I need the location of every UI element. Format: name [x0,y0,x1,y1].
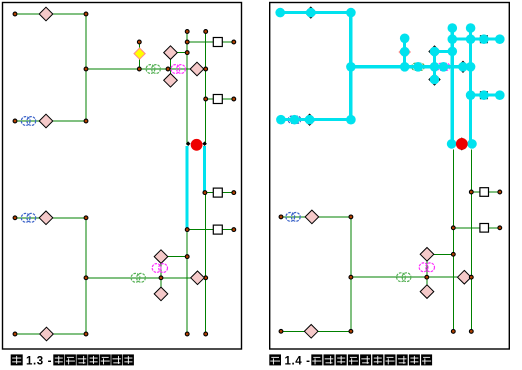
wire [171,52,188,54]
junction dot [84,332,88,336]
terminal dot [232,97,236,101]
wire end blob [467,139,477,149]
wire [222,41,233,43]
net highlight wire (cyan) [471,94,500,97]
black pin mark right of red node [202,141,207,146]
wire [222,192,233,194]
wire vertical A [186,32,188,146]
terminal dot [13,12,17,16]
blue connector circles [21,213,35,222]
junction dot [349,275,353,279]
junction dot [469,275,473,279]
net highlight wire vertical B (cyan) [469,28,472,144]
pin diamond [154,250,168,264]
magenta connector circles [419,263,434,272]
wire [427,253,453,255]
wire end blob [447,139,457,149]
wire stub through lower cluster [160,257,162,294]
junction dot [425,275,429,279]
wire [222,98,233,100]
svg-text:1.3 -: 1.3 - [26,356,52,368]
junction dot [84,119,88,123]
terminal dot [185,30,189,34]
svg-text:1.4 -: 1.4 - [285,356,311,368]
wire [85,218,87,334]
pin blob [305,115,315,125]
IOB square [213,38,222,47]
net highlight wire (cyan) [433,52,436,80]
wire [15,120,86,122]
IOB square [213,225,222,234]
wire vertical A lower [186,230,188,334]
pin diamond [39,7,53,21]
terminal blob [400,34,410,44]
junction dot [204,97,208,101]
terminal dot [185,332,189,336]
wire [187,229,213,231]
wire [161,256,187,258]
wire vertical A lower [452,150,454,332]
junction blob [346,115,356,125]
wire [86,277,206,279]
terminal blob [276,115,286,125]
net highlight segment A (cyan) [185,146,188,229]
junction blob [466,62,476,72]
right panel border [270,3,510,350]
terminal blob [275,8,285,18]
pin diamond under highlight [429,74,440,85]
pin diamond [420,285,434,299]
terminal dot [204,30,208,34]
net highlight wire (cyan) [351,65,471,68]
black pin mark right of red node [468,142,473,147]
pin diamond under highlight [458,61,469,72]
terminal dot [232,40,236,44]
junction blob [430,62,440,72]
connector blob [413,62,423,72]
pin diamond under highlight [304,114,315,125]
wire [15,13,86,15]
wire [489,191,500,193]
net highlight wire (cyan) [280,11,351,14]
terminal blob [466,23,476,33]
green connector circles [397,273,411,282]
magenta connector circles under highlight [437,63,450,70]
terminal dot [13,119,17,123]
junction dot [84,216,88,220]
terminal dot [498,226,502,230]
junction blob [346,8,356,18]
pin diamond [304,325,318,339]
junction dot [84,276,88,280]
IOB square [480,188,489,197]
pin diamond [305,210,319,224]
wire [489,227,500,229]
yellow site diamond under highlight [399,46,410,57]
junction dot [84,12,88,16]
wire stub through lower cluster [426,254,428,291]
junction dot [451,252,455,256]
wire [205,192,213,194]
pin diamond [164,46,178,60]
IOB square [480,224,489,233]
pin diamond under highlight [429,46,440,57]
wire [86,68,206,70]
junction dot [84,67,88,71]
wire [471,191,479,193]
wire stub through cluster [170,53,172,81]
junction dot [349,329,353,333]
wire vertical B [205,32,207,146]
IOB square under highlight [481,92,488,99]
red locked node [456,138,468,150]
junction dot [185,51,189,55]
terminal blob [495,34,505,44]
junction dot [185,228,189,232]
junction blob [346,62,356,72]
pin blob [458,62,468,72]
pin diamond [190,62,204,76]
green connector circles [131,273,145,282]
pin diamond [154,287,168,301]
terminal dot [232,191,236,195]
wire [222,229,233,231]
terminal dot [13,332,17,336]
IOB square under highlight [481,36,488,43]
right caption: 图 1.4 - 查看已连接的线路结果 [269,354,432,367]
black pin mark left of red node [186,141,191,146]
wire [15,333,86,335]
pin diamond [458,270,472,284]
terminal dot [279,215,283,219]
junction dot [137,67,141,71]
wire vertical B lower [205,193,207,334]
wire [85,14,87,121]
terminal dot [469,330,473,334]
blue connector circles under highlight [288,116,301,123]
magenta connector circles [171,65,185,74]
IOB blob [479,34,489,44]
net highlight wire (cyan) [403,38,406,67]
net highlight wire vertical A (cyan) [451,28,454,144]
yellow site diamond [134,48,145,59]
red locked node [191,139,203,151]
green connector circles [146,65,160,74]
junction blob [448,34,458,44]
terminal dot [279,329,283,333]
IOB blob [479,90,489,100]
wire [15,217,86,219]
pin diamond [39,211,53,225]
pin blob [430,75,440,85]
junction dot [185,40,189,44]
junction dot [203,191,207,195]
terminal blob [448,23,458,33]
junction dot [166,67,170,71]
pin diamond [39,114,53,128]
terminal dot [13,216,17,220]
net highlight wire (cyan) [280,118,351,121]
junction dot [451,226,455,230]
junction dot [204,276,208,280]
yellow site blob [400,47,410,57]
terminal dot [498,190,502,194]
terminal dot [232,228,236,232]
wire [350,217,352,331]
pin blob [306,8,316,18]
wire [453,227,479,229]
pin diamond [164,74,178,88]
left caption: 图 1.3 - 初始逻辑示意图 [11,354,134,367]
black pin mark left of red node [451,142,456,147]
pin diamond [191,271,205,285]
junction blob [466,34,476,44]
magenta connector circles [152,264,167,273]
black pin mark above red node [460,137,464,141]
terminal blob [495,90,505,100]
wire vertical B lower [470,150,472,332]
wire [281,216,351,218]
terminal dot [204,332,208,336]
junction blob [400,62,410,72]
net highlight wire (cyan) [349,13,352,120]
junction dot [469,190,473,194]
green connector circles under highlight [412,63,425,70]
IOB square [213,188,222,197]
junction blob [448,47,458,57]
junction blob [466,90,476,100]
junction dot [159,276,163,280]
pin diamond under highlight [305,7,316,18]
blue connector circles [286,213,300,222]
pin diamond [420,248,434,262]
terminal dot [137,40,141,44]
left panel border [3,3,242,350]
blue connector circles [21,117,35,126]
IOB square [213,95,222,104]
wire [281,330,351,332]
net highlight wire (cyan) [452,38,500,41]
wire [351,276,471,278]
pin blob [430,47,440,57]
terminal dot [451,330,455,334]
wire stub to yellow site [138,42,140,69]
connector blob [439,62,449,72]
connector blob [290,115,300,125]
net highlight segment B (cyan) [203,146,206,192]
black pin mark below red node [460,147,464,151]
junction dot [185,255,189,259]
net highlight wire (cyan) [435,50,453,53]
junction dot [349,215,353,219]
pin diamond [40,327,54,341]
wire [206,98,214,100]
wire [187,41,213,43]
junction dot [204,67,208,71]
